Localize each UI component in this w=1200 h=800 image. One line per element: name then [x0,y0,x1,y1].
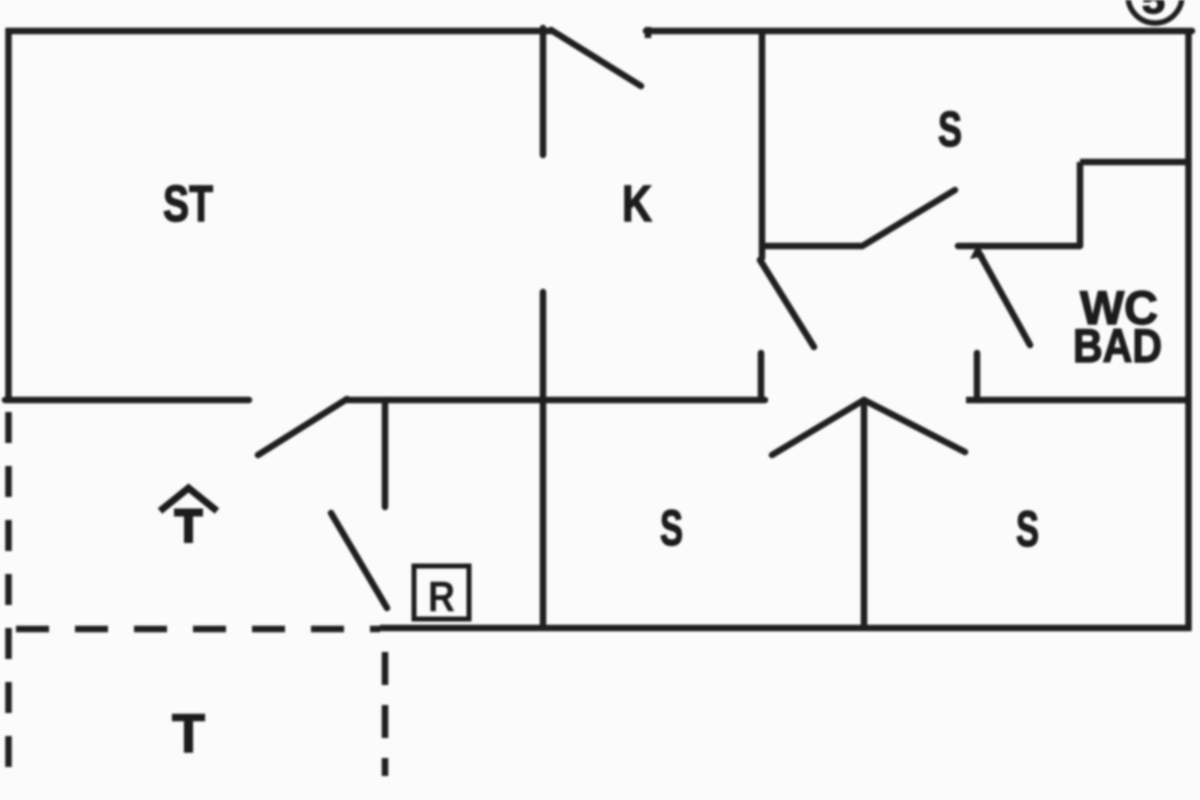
svg-text:R: R [428,573,455,621]
circled number 5 badge [1128,0,1182,23]
door leaf S bottom-left [772,400,864,455]
boxed R symbol [414,566,469,621]
wall mid-center horizontal [347,397,765,404]
svg-text:K: K [622,175,652,232]
door leaf hall near R [331,513,387,608]
svg-text:ST: ST [163,175,213,232]
wall S-room door header left [762,243,864,250]
dashed wall terrace bottom [16,626,380,633]
entrance symbol caret over T [160,488,217,543]
dashed wall terrace right [382,652,389,776]
svg-text:S: S [1016,501,1039,557]
wall S-room door header right [958,243,1080,250]
wall left exterior [5,28,12,400]
wall mid-right horizontal [966,397,1188,404]
wall hall stub [382,400,389,507]
wall top-right exterior [646,28,1192,35]
wall hall divider below K [540,400,547,628]
wall WC notch horizontal [1080,159,1191,166]
wall top-left exterior [6,28,551,35]
door leaf WC [978,251,1030,345]
wall bottom exterior [380,625,1191,632]
svg-text:BAD: BAD [1073,319,1162,372]
wall ST/K divider upper [540,28,547,155]
svg-text:S: S [938,103,962,157]
door jamb tick right of S doors [974,353,981,400]
door jamb tick left of S doors [758,353,765,400]
door leaf S-room top [864,190,955,245]
door leaf kitchen (top wall) [551,30,641,86]
arrowhead on WC door leaf [970,245,985,259]
wall end tick at kitchen door [645,27,652,38]
wall mid-left horizontal [5,397,249,404]
wall divider between S rooms [861,399,868,628]
door leaf S bottom-right [864,400,965,452]
svg-text:S: S [660,500,683,556]
dashed wall terrace left [5,412,12,778]
wall right exterior [1185,28,1192,631]
door leaf hall near K [760,260,814,347]
wall ST/K divider lower [540,292,547,400]
door leaf entrance to ST [258,399,347,455]
svg-text:T: T [172,702,205,764]
wall K/S divider [759,31,766,258]
wall WC notch vertical [1077,162,1084,246]
svg-text:5: 5 [1142,0,1165,22]
